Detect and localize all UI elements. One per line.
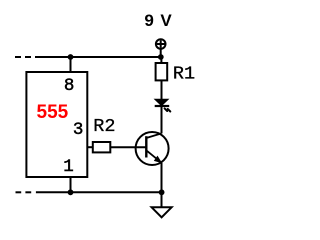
junction dot pin8 xyxy=(68,54,74,60)
wire xyxy=(25,191,31,193)
wire emitter down xyxy=(161,163,163,193)
svg-text:1: 1 xyxy=(63,157,74,177)
resistor R2 xyxy=(87,116,146,152)
node VCC top rail dashed continuation xyxy=(15,56,21,58)
junction dot supply xyxy=(158,54,164,60)
svg-text:3: 3 xyxy=(73,120,84,140)
junction dot pin1 xyxy=(68,189,74,195)
svg-text:R1: R1 xyxy=(173,64,195,85)
junction dot emitter xyxy=(159,189,165,195)
svg-text:R2: R2 xyxy=(93,116,115,137)
node GND bottom rail dashed continuation xyxy=(16,191,22,193)
op IC U1 555 box xyxy=(26,72,87,177)
svg-text:555: 555 xyxy=(37,102,69,123)
LED D1 xyxy=(155,99,171,111)
wire R1 top xyxy=(160,57,162,63)
battery + terminal 9V xyxy=(144,11,172,57)
transistor Q1 xyxy=(136,132,169,165)
wire LED to collector xyxy=(161,106,163,133)
wire xyxy=(25,56,31,58)
svg-text:9 V: 9 V xyxy=(144,11,172,30)
resistor R1 xyxy=(156,63,168,80)
wire R1 to LED xyxy=(161,80,163,99)
wire pin 1 xyxy=(70,177,72,192)
wire bottom rail xyxy=(36,191,162,193)
ground xyxy=(152,192,172,217)
svg-text:8: 8 xyxy=(64,76,75,96)
wire pin 8 xyxy=(70,57,72,72)
wire top rail xyxy=(35,56,162,58)
